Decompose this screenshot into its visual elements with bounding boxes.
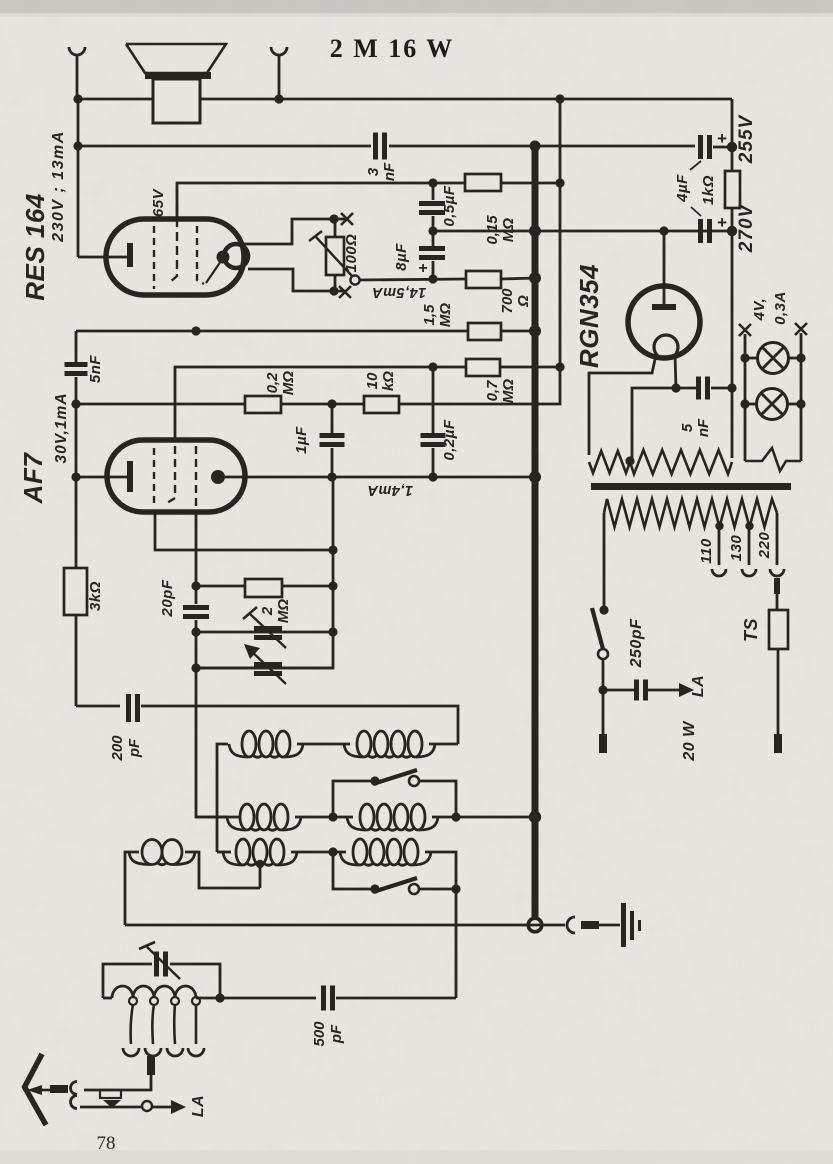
selected tap pin <box>147 1056 155 1075</box>
junction trim1 row right <box>328 627 337 636</box>
svg-text:2 M 16 W: 2 M 16 W <box>330 34 455 63</box>
junction row3 / S2 left <box>328 847 337 856</box>
wire top rail +255V (y=99) <box>78 98 732 101</box>
switch S2 contact dot <box>370 884 379 893</box>
junction rail3 / right rail <box>727 226 737 236</box>
wire 1.5M right <box>501 330 535 333</box>
trimmer capacitor 2 <box>254 662 282 667</box>
svg-text:1kΩ: 1kΩ <box>700 175 717 205</box>
junction g3 / x333 <box>328 545 337 554</box>
junction lamp1 left <box>740 353 749 362</box>
paper grain <box>0 0 1 1</box>
wire row3 right <box>425 852 456 889</box>
trimmer capacitor 1 <box>254 626 282 631</box>
svg-text:kΩ: kΩ <box>380 371 397 391</box>
resistor 0,15M <box>465 174 501 191</box>
mains plug pin right <box>774 734 782 753</box>
wire 1.5M row left <box>76 330 468 333</box>
resistor 1k body <box>725 171 740 208</box>
wire row2 left <box>196 816 239 819</box>
x terminal lamp left <box>739 324 751 336</box>
wire 8uF bottom lead <box>432 261 435 279</box>
coil L3a tap dot <box>256 860 264 868</box>
svg-text:pF: pF <box>126 738 143 758</box>
antenna varcap <box>154 952 159 977</box>
svg-text:3: 3 <box>365 167 382 176</box>
wire row1 right <box>429 743 458 746</box>
junction 250pF branch <box>598 685 607 694</box>
svg-text:250pF: 250pF <box>628 618 645 668</box>
RES164 cathode bar <box>127 243 133 267</box>
wire 200pF row <box>76 705 120 708</box>
wire wiper to node <box>359 279 466 280</box>
wire rail3 (y=231) <box>433 230 732 233</box>
coupling coil right lead <box>185 852 260 888</box>
svg-text:pF: pF <box>328 1024 345 1044</box>
wire left rail 377-568 <box>75 377 78 568</box>
x terminal pot top <box>341 213 353 225</box>
tube RES164 envelope <box>106 219 244 295</box>
wire row2 mid <box>295 816 353 819</box>
coil tap leads <box>131 1004 133 1044</box>
junction anode / bus <box>529 471 541 483</box>
junction trim1 row left <box>191 627 200 636</box>
label 5 nF RGN <box>679 418 712 437</box>
switch S1 wire right <box>419 781 456 817</box>
pot top lead <box>334 219 337 237</box>
wire 5nF left lead <box>676 387 698 390</box>
wire rail2 mid <box>389 145 695 148</box>
svg-text:0,3A: 0,3A <box>772 291 789 325</box>
mains switch circle <box>598 649 608 659</box>
junction 1.5M / bus <box>529 325 541 337</box>
svg-text:110: 110 <box>698 538 715 564</box>
speaker terminal left <box>69 47 85 55</box>
wire 2M row right <box>282 585 333 588</box>
wire 0.2M to 10k <box>281 403 364 406</box>
wire x456 down (889-998) <box>455 889 458 998</box>
capacitor 0,2µF <box>421 433 446 438</box>
junction 0.2uF top <box>428 362 437 371</box>
svg-text:230V ; 13mA: 230V ; 13mA <box>50 130 67 243</box>
wire x196 (512-586) <box>195 512 198 604</box>
junction 700R / bus <box>529 272 541 284</box>
coil L3b <box>340 852 359 865</box>
resistor 0,7M body <box>466 359 500 376</box>
x terminal lamp right <box>795 323 807 335</box>
wire anode lower lead <box>248 269 345 291</box>
wire primary left down <box>603 513 606 606</box>
coupling coil left lead <box>125 852 139 925</box>
wire row1 left riser (x=217) <box>217 744 228 852</box>
wire 1uF top lead <box>331 404 334 433</box>
junction top rail / x560 drop <box>555 94 564 103</box>
svg-text:1µF: 1µF <box>293 426 310 454</box>
tap hook 3 <box>167 1048 183 1056</box>
switch S2 circle <box>409 884 419 894</box>
speaker bar <box>145 72 211 79</box>
label 0,15 M <box>484 215 517 245</box>
pot wiper arrow <box>316 237 352 276</box>
capacitor 4µF upper (255V) <box>698 135 703 159</box>
svg-text:20pF: 20pF <box>159 579 176 617</box>
junction row2 / bus <box>529 811 541 823</box>
capacitor 4µF lower (270V) <box>698 219 703 243</box>
svg-text:MΩ: MΩ <box>500 379 517 403</box>
RES164 grid3 dashed <box>197 226 204 284</box>
wire 0.5uF top lead <box>432 183 435 200</box>
RES164 anode ring <box>224 244 248 268</box>
svg-text:0,5µF: 0,5µF <box>441 185 458 226</box>
fuse TS body <box>769 610 788 649</box>
AF7 grid2 dashed <box>167 446 175 503</box>
label 700 ohm <box>499 288 532 314</box>
label 1,5 M <box>421 303 454 327</box>
junction top rail / right terminal <box>274 94 283 103</box>
junction rail3 / RGN drop <box>659 226 668 235</box>
label 0,7 M <box>484 379 517 403</box>
junction rail2 / ground bus <box>530 141 541 152</box>
svg-text:700: 700 <box>499 288 516 314</box>
junction antenna node <box>215 993 224 1002</box>
svg-text:+: + <box>418 260 428 277</box>
svg-text:30V,1mA: 30V,1mA <box>53 392 70 463</box>
svg-text:200: 200 <box>109 735 126 762</box>
resistor 1,5M body <box>468 323 501 340</box>
speaker magnet body <box>153 79 200 123</box>
mains plug pin left <box>599 734 607 753</box>
capacitor 500pF <box>321 986 326 1011</box>
junction 1uF top <box>327 399 336 408</box>
resistor 0,2M body <box>245 396 281 413</box>
RES164 anode dot <box>217 251 230 264</box>
antenna hook lower <box>71 1096 78 1109</box>
wire left rail 331-362 <box>75 331 78 362</box>
wire right rail drop (x=732, 99-146) <box>731 99 734 147</box>
junction pot top <box>329 214 338 223</box>
antenna feed arrowhead <box>27 1085 42 1095</box>
bus end ring <box>528 918 542 932</box>
label 3nF <box>365 162 398 181</box>
junction pot bottom <box>329 286 338 295</box>
wire x560 drop (98-367) <box>559 99 562 367</box>
wire tap riser <box>259 866 262 888</box>
svg-text:TS: TS <box>741 618 761 642</box>
wire tap 110 down <box>718 526 721 565</box>
coil L2a <box>227 817 246 830</box>
LA arrow <box>152 1106 172 1109</box>
wire 700R right <box>501 278 535 279</box>
lamp 2 leads <box>745 403 756 406</box>
mains switch blade <box>592 608 603 649</box>
svg-text:20 W: 20 W <box>681 720 698 762</box>
coil L1a <box>229 744 248 757</box>
wire right rail 231-388 <box>731 231 734 388</box>
tap hook 2 <box>145 1048 161 1056</box>
wire 250pF left lead <box>603 689 636 692</box>
AF7 grid1 dashed <box>153 448 155 508</box>
junction row2 / S1 left <box>328 812 337 821</box>
svg-text:2: 2 <box>259 606 276 616</box>
svg-text:nF: nF <box>695 418 712 437</box>
junction lamp1 right <box>796 353 805 362</box>
lamp 2 <box>757 389 788 420</box>
wire 5nF right lead <box>711 387 732 390</box>
AF7 grid3 dashed <box>195 446 197 508</box>
svg-text:0,2µF: 0,2µF <box>441 419 458 460</box>
capacitor 8µF <box>419 246 445 251</box>
capacitor 0,5µF <box>419 201 445 206</box>
junction S2 right <box>451 884 460 893</box>
svg-text:AF7: AF7 <box>18 452 48 505</box>
antenna varcap right <box>170 964 220 998</box>
leader 4uF to lower cap <box>691 207 701 216</box>
wire AF7 anode row <box>225 476 535 479</box>
wire 8uF top lead <box>432 231 435 246</box>
LA arrow mains <box>679 683 694 697</box>
wire left rail 615-706 <box>75 615 78 706</box>
svg-text:RES 164: RES 164 <box>20 193 50 301</box>
svg-text:Ω: Ω <box>515 295 532 308</box>
tube RGN354 envelope <box>628 286 700 358</box>
junction left rail / rail2 <box>73 141 82 150</box>
wire y404 left <box>76 403 245 406</box>
wire row2 right <box>432 816 535 819</box>
wire row1 mid <box>297 743 350 746</box>
wire antenna node to 500pF <box>220 997 316 1000</box>
svg-text:5: 5 <box>679 423 696 432</box>
wire tap 220 down <box>776 513 779 565</box>
junction primary tap 110 <box>715 522 723 530</box>
coil L3a <box>223 852 242 865</box>
wire right rail 147-171 <box>731 147 734 171</box>
switch S2 blade <box>373 878 417 892</box>
x terminal pot bottom <box>339 286 351 298</box>
junction rail3 / bus <box>529 225 541 237</box>
junction lamp2 left <box>740 399 749 408</box>
svg-text:1,5: 1,5 <box>421 304 438 326</box>
wire fuse down <box>777 649 780 734</box>
winding RGN filament <box>589 451 630 473</box>
svg-text:500: 500 <box>311 1021 328 1047</box>
wire AF7 cathode lead <box>76 476 127 479</box>
antenna symbol <box>24 1054 42 1088</box>
wire tap 130 down <box>748 526 751 565</box>
switch S2 wire left <box>333 852 371 889</box>
wire LA branch <box>80 1106 142 1109</box>
wire tap pin down <box>84 1075 151 1090</box>
label 0,2 M <box>264 371 297 395</box>
wire right rail 208-231 <box>731 208 734 231</box>
junction anode / 0.2uF <box>428 472 437 481</box>
svg-text:nF: nF <box>381 162 398 181</box>
antenna varcap arrow <box>147 947 180 979</box>
svg-text:3kΩ: 3kΩ <box>87 581 104 611</box>
RGN354 plate bar <box>652 304 676 310</box>
tap hook 130 <box>742 569 756 576</box>
svg-text:14,5mA: 14,5mA <box>372 284 427 300</box>
tube AF7 envelope <box>107 440 245 512</box>
coupling coil <box>129 852 151 865</box>
wire 1uF bottom lead <box>331 448 334 477</box>
wire AF7 grid riser <box>175 367 466 440</box>
AF7 anode dot <box>211 470 225 484</box>
junction secondary tap <box>625 456 634 465</box>
resistor 10k body <box>364 396 399 413</box>
svg-text:4µF: 4µF <box>674 174 691 203</box>
wire trim2 row <box>196 667 333 670</box>
wire left rail (99-257) <box>77 99 80 257</box>
wire 0.2uF top lead <box>432 367 435 433</box>
resistor 3k body <box>64 568 87 615</box>
svg-text:+: + <box>717 213 727 232</box>
AF7 cathode bar <box>127 461 133 492</box>
capacitor 200pF <box>126 694 131 722</box>
svg-text:270V: 270V <box>736 203 757 253</box>
wire 5nF left branch <box>632 388 676 460</box>
tap hook 4 <box>188 1048 204 1056</box>
RGN filament left lead <box>589 355 656 455</box>
wire row3 mid <box>291 851 346 854</box>
junction filament / 5nF <box>671 383 680 392</box>
potentiometer 100R body <box>326 237 344 275</box>
switch S2 wire right <box>419 888 456 891</box>
wire x196 (668-817) <box>196 668 228 817</box>
wire pin to fuse <box>776 594 779 610</box>
wire AF7 g3 lead down <box>155 512 333 550</box>
tap pin 220 <box>774 578 780 594</box>
junction lamp2 right <box>796 399 805 408</box>
RES164 anode whisker <box>206 261 221 283</box>
tap hook 220 <box>770 569 784 576</box>
speaker terminal right <box>271 47 287 55</box>
wave trap symbol <box>100 1090 121 1098</box>
transformer core bar <box>591 483 791 490</box>
antenna coil <box>103 997 112 1000</box>
svg-text:+: + <box>717 129 727 148</box>
pot wiper circle <box>350 275 359 284</box>
switch S1 circle <box>409 776 419 786</box>
svg-text:78: 78 <box>97 1133 116 1154</box>
switch S1 wire left <box>333 781 371 817</box>
speaker cone <box>126 44 226 73</box>
junction 0.7M / x560 <box>555 362 564 371</box>
junction primary tap 130 <box>745 522 753 530</box>
label 2 M <box>259 599 292 623</box>
ground bus (thick vertical x=535) <box>532 146 539 919</box>
wire 0.2uF bottom lead <box>432 448 435 477</box>
trim1 arrow <box>250 614 286 648</box>
junction anode / 1uF <box>327 472 336 481</box>
capacitor 1µF <box>320 433 345 438</box>
junction AF7 cathode / rail <box>71 472 80 481</box>
RES164 grid2 line with foot <box>169 190 177 283</box>
svg-text:LA: LA <box>690 675 707 697</box>
junction rail2 / right rail <box>727 142 737 152</box>
switch S1 contact dot <box>370 776 379 785</box>
svg-text:10: 10 <box>364 372 381 389</box>
lamp 1 <box>758 343 789 374</box>
svg-text:130: 130 <box>728 535 745 562</box>
wire 2M row left <box>196 585 245 588</box>
switch S1 blade <box>373 770 417 784</box>
svg-text:0,7: 0,7 <box>484 380 501 402</box>
svg-text:LA: LA <box>190 1095 207 1117</box>
junction 2M row left <box>191 581 200 590</box>
svg-text:4V,: 4V, <box>751 298 768 322</box>
junction row2 / S1 right <box>451 812 460 821</box>
winding mains primary <box>604 499 777 527</box>
wire right rail 388-458 <box>731 388 734 458</box>
wire grid2 to top (x=177) <box>177 183 433 219</box>
wire 0.7M right <box>500 366 560 369</box>
capacitor 3nF <box>373 133 378 160</box>
svg-text:65V: 65V <box>150 187 167 217</box>
capacitor 5nF RGN <box>696 377 701 400</box>
LA branch circle <box>142 1101 152 1111</box>
wire 250pF right lead <box>646 689 680 692</box>
svg-text:8µF: 8µF <box>393 243 410 271</box>
capacitor 250pF <box>634 680 639 701</box>
mains switch dot <box>599 605 608 614</box>
svg-text:5nF: 5nF <box>87 355 104 384</box>
wire switch to plug <box>602 659 605 734</box>
coil L2b <box>347 817 366 830</box>
winding pilot lamps <box>745 448 801 471</box>
junction 2M row right <box>328 581 337 590</box>
wire to earth <box>599 924 620 927</box>
svg-text:100Ω: 100Ω <box>343 234 360 273</box>
trim2 arrow <box>250 650 286 684</box>
wire anode upper lead <box>244 219 345 244</box>
svg-text:220: 220 <box>756 532 773 560</box>
svg-text:MΩ: MΩ <box>437 303 454 327</box>
wire lamp right rail <box>800 333 803 461</box>
earth hook <box>567 917 575 933</box>
antenna hook upper <box>71 1082 78 1095</box>
resistor 700R body <box>466 271 501 288</box>
label 500 pF <box>311 1021 345 1047</box>
wire 500pF to x456 <box>336 997 456 1000</box>
coil L1b <box>344 744 363 757</box>
junction y404 / left rail <box>71 399 80 408</box>
wire rail2 right stub <box>713 146 732 149</box>
capacitor 20pF <box>183 605 209 610</box>
svg-text:0,2: 0,2 <box>264 372 281 394</box>
label 200 pF <box>109 735 143 762</box>
svg-text:255V: 255V <box>736 114 757 164</box>
tap hook 110 <box>712 569 726 576</box>
antenna feed pin <box>50 1085 68 1093</box>
antenna coil loops <box>129 997 137 1005</box>
wire rail2 left (y=146) <box>78 145 371 148</box>
soft shading at bottom edge <box>0 1150 833 1164</box>
wire 0.15M left <box>433 182 465 185</box>
antenna varcap bracket <box>103 964 152 998</box>
wire RGN plate riser <box>663 231 666 306</box>
wire RES164 cathode lead <box>78 256 127 259</box>
earth pin bar <box>581 921 599 929</box>
resistor 2M body <box>245 579 282 597</box>
wire 0.15M right <box>501 182 560 185</box>
wire 200pF right <box>141 706 458 744</box>
svg-text:MΩ: MΩ <box>275 599 292 623</box>
wire x196 (620-668) <box>195 620 198 668</box>
wire trim1 row <box>196 631 333 634</box>
label 10 k <box>364 371 397 391</box>
pot bottom lead <box>334 275 337 291</box>
RGN354 filament circle <box>654 335 678 359</box>
